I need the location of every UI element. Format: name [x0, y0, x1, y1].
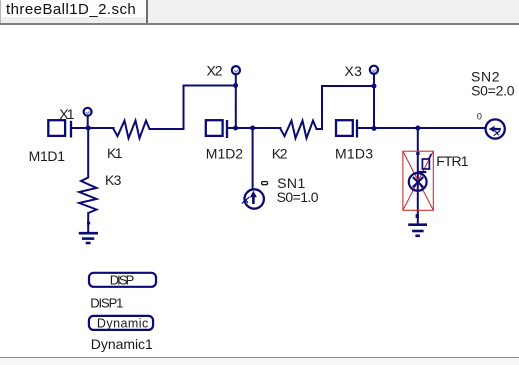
- svg-text:X3: X3: [345, 63, 363, 79]
- svg-text:M1D3: M1D3: [335, 145, 373, 161]
- svg-text:0: 0: [477, 112, 482, 122]
- svg-text:X1: X1: [59, 106, 75, 122]
- svg-text:Dynamic1: Dynamic1: [91, 336, 153, 352]
- svg-text:FTR1: FTR1: [436, 153, 469, 169]
- svg-text:DISP1: DISP1: [90, 296, 123, 311]
- svg-text:K2: K2: [272, 145, 288, 161]
- svg-text:Dynamic: Dynamic: [97, 316, 148, 330]
- svg-text:DISP: DISP: [110, 272, 135, 287]
- svg-text:M1D2: M1D2: [206, 145, 244, 161]
- svg-text:K3: K3: [105, 172, 122, 188]
- svg-text:S0=2.0: S0=2.0: [471, 83, 515, 99]
- svg-text:M1D1: M1D1: [29, 148, 66, 164]
- svg-text:X2: X2: [207, 62, 223, 78]
- svg-text:K1: K1: [107, 145, 123, 161]
- svg-text:S0=1.0: S0=1.0: [277, 189, 319, 205]
